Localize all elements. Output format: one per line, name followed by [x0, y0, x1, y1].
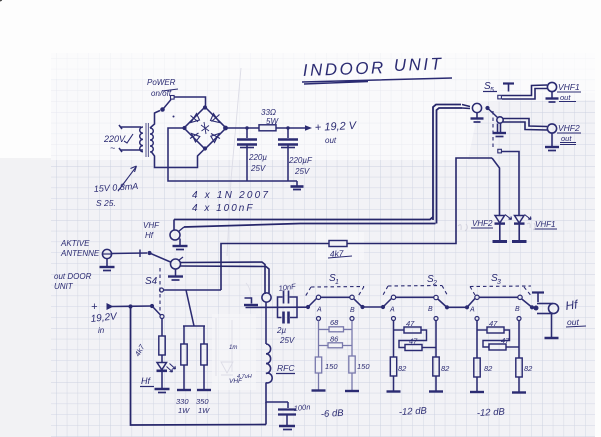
- wire riser to dropper resistors: [186, 290, 194, 326]
- connector VHF1 out jack: [547, 82, 556, 91]
- svg-text:B: B: [428, 306, 433, 313]
- wire pair pivot to VHF2 jack: [503, 119, 547, 131]
- scan lighter zone top: [51, 53, 595, 160]
- switch S5 upper contact square: [498, 95, 502, 99]
- ground VHF2 jack: [545, 133, 559, 150]
- svg-text:350: 350: [196, 397, 209, 406]
- connector VHF input jack: [170, 220, 184, 241]
- wire pair S4 jack to bias junction: [181, 262, 270, 294]
- connector S5 common jack: [472, 103, 481, 112]
- svg-text:-12 dB: -12 dB: [399, 406, 428, 418]
- svg-text:330: 330: [176, 397, 189, 406]
- svg-text:+: +: [91, 301, 98, 313]
- resistor 330 1W: [183, 326, 185, 344]
- svg-text:ANTENNE: ANTENNE: [60, 249, 100, 258]
- svg-text:33Ω: 33Ω: [261, 108, 276, 117]
- svg-text:A: A: [469, 307, 475, 314]
- svg-text:47: 47: [489, 319, 498, 328]
- svg-text:out: out: [560, 93, 571, 102]
- S1 shunt terminals: [317, 317, 321, 321]
- wire secondary bottom to bridge bottom: [152, 150, 204, 168]
- svg-text:150: 150: [357, 362, 370, 371]
- svg-text:5: 5: [490, 87, 494, 94]
- wire lower contact to VHF1 LED: [502, 152, 520, 216]
- wire 19.2V input line: [112, 305, 152, 308]
- switch S5 upper arm: [485, 106, 489, 110]
- switch S2: [381, 305, 385, 309]
- wire bridge left to 0V rail: [168, 128, 297, 181]
- svg-text:47: 47: [409, 337, 418, 346]
- svg-text:5W: 5W: [266, 117, 279, 126]
- connector Hf out plug: [534, 306, 539, 311]
- capacitor 10nF coupling: [278, 291, 298, 308]
- switch S5 dashed link: [492, 111, 494, 148]
- S2 shunt terminals: [392, 317, 396, 321]
- svg-text:out: out: [561, 134, 572, 143]
- svg-text:AKTIVE: AKTIVE: [60, 239, 90, 248]
- scanner corner mark: [0, 0, 2, 2]
- connector aktive antenne: [102, 249, 147, 258]
- wire bridge right +rail: [226, 127, 305, 129]
- wire pair vertical run up to S5: [433, 105, 470, 224]
- S1 series resistor 68: [318, 321, 320, 358]
- svg-text:4 x 100nF: 4 x 100nF: [192, 203, 254, 214]
- S3 shunt terminals: [475, 317, 479, 321]
- wire left rail down and bottom rail: [131, 307, 267, 426]
- svg-text:4 x 1N 2007: 4 x 1N 2007: [192, 190, 270, 201]
- svg-text:1m: 1m: [229, 345, 237, 351]
- svg-text:VHF: VHF: [143, 221, 160, 230]
- svg-text:out: out: [567, 317, 579, 327]
- label 220V ~: [103, 134, 133, 153]
- ground 0V rail: [291, 181, 304, 190]
- svg-text:UNIT: UNIT: [393, 54, 443, 75]
- svg-text:25V: 25V: [294, 167, 310, 176]
- ground below S5 pivot: [493, 124, 507, 137]
- S3 shunt resistor 82 left: [474, 358, 480, 377]
- svg-text:-12 dB: -12 dB: [477, 407, 506, 419]
- S3 shunt resistor 82 right: [516, 358, 522, 377]
- ground S4 jack: [168, 269, 183, 280]
- switch S5 pivot jack: [497, 117, 503, 123]
- svg-text:VHF2: VHF2: [472, 219, 493, 228]
- wire S1 B to S2 A: [363, 306, 384, 308]
- svg-text:S4: S4: [145, 276, 158, 287]
- switch power on/off: [161, 96, 175, 118]
- capacitor C1 220u 25V: [237, 128, 257, 181]
- svg-text:Hf: Hf: [145, 231, 154, 240]
- switch S2 dashed box: [383, 286, 447, 296]
- svg-text:UNIT: UNIT: [54, 282, 74, 291]
- wire secondary top to switch: [150, 111, 160, 129]
- svg-text:1W: 1W: [178, 406, 190, 415]
- transformer T1 windings and core: [140, 123, 154, 157]
- svg-text:100n: 100n: [293, 402, 311, 413]
- S1 shunt resistor 150 right: [349, 356, 355, 373]
- ground at bias junction: [244, 298, 258, 305]
- svg-text:B: B: [350, 307, 355, 314]
- S2 shunt resistor 82 right: [433, 357, 439, 376]
- choke RFC vertical: [265, 302, 267, 344]
- svg-text:Hf: Hf: [141, 376, 151, 386]
- svg-text:A: A: [316, 307, 322, 314]
- switch S1 dashed box: [306, 287, 365, 297]
- wire switch to bridge top: [175, 97, 206, 106]
- svg-text:B: B: [515, 306, 520, 313]
- switch S4 lower contact: [160, 315, 164, 319]
- ground aktive antenne: [100, 259, 115, 271]
- switch S5 lower contact square: [498, 149, 502, 153]
- svg-text:82: 82: [484, 364, 493, 373]
- wire 4k7 feed line horizontal: [221, 244, 329, 291]
- S1 shunt resistor 150 left: [315, 357, 321, 373]
- S1 series resistor 86: [319, 345, 353, 347]
- wire 4k7 to S5 lower contact: [347, 158, 492, 244]
- ghost pencil marks near LEDs: [458, 223, 535, 231]
- terminal T stub upper: [503, 84, 514, 92]
- S3 series resistor 47 top: [476, 321, 478, 359]
- svg-text:in: in: [98, 326, 105, 335]
- switch S3: [465, 305, 469, 309]
- bridge diodes scribble: [190, 114, 220, 143]
- svg-text:1: 1: [335, 279, 339, 286]
- switch S4 lower arm: [152, 306, 161, 315]
- svg-text:-6 dB: -6 dB: [321, 408, 345, 420]
- connector VHF2 out jack: [547, 124, 556, 133]
- svg-text:82: 82: [398, 364, 407, 373]
- title INDOOR UNIT: [302, 54, 452, 84]
- svg-text:47: 47: [501, 336, 510, 345]
- svg-text:out DOOR: out DOOR: [54, 272, 92, 281]
- S2 shunt resistor 82 left: [390, 357, 396, 376]
- svg-text:+ 19,2 V: + 19,2 V: [315, 120, 359, 134]
- svg-text:150: 150: [325, 362, 338, 371]
- svg-text:220µF: 220µF: [288, 156, 313, 165]
- switch S4 upper arm: [147, 251, 151, 255]
- switch S4 middle contact: [160, 288, 164, 292]
- S3 series resistor 47 bottom: [489, 344, 506, 350]
- svg-text:2µ: 2µ: [276, 326, 286, 335]
- ghost erased area patches: [212, 314, 256, 390]
- capacitor 100n decoupling: [278, 402, 296, 430]
- resistor 4k7 feed: [329, 241, 347, 247]
- svg-text:~: ~: [110, 143, 115, 153]
- svg-text:A: A: [389, 307, 395, 314]
- wire pair upper contact to VHF1 jack: [502, 85, 547, 99]
- svg-text:VHF2: VHF2: [558, 123, 580, 133]
- svg-text:VHF1: VHF1: [558, 82, 580, 92]
- LED VHF2: [495, 216, 505, 224]
- transformer T1 220V primary leads: [119, 125, 143, 152]
- resistor 350 1W: [203, 326, 205, 344]
- svg-text:68: 68: [330, 318, 339, 327]
- terminal T stub at Hf out: [532, 293, 544, 303]
- svg-text:82: 82: [441, 364, 450, 373]
- svg-text:4,7uH: 4,7uH: [237, 374, 252, 380]
- resistor 4k7 dropper: [159, 336, 165, 355]
- svg-text:VHF1: VHF1: [535, 220, 555, 229]
- ground VHF1 jack: [546, 92, 559, 102]
- svg-text:RFC: RFC: [277, 363, 295, 373]
- wire signal line through caps: [246, 306, 309, 308]
- resistor 33ohm 5W: [259, 125, 276, 131]
- ground VHF input jack: [173, 239, 188, 250]
- switch S3 dashed box: [470, 286, 531, 296]
- left margin gray strip: [0, 158, 51, 437]
- svg-text:25V: 25V: [279, 336, 295, 345]
- svg-text:out: out: [325, 136, 337, 145]
- wire choke bottom to rail: [266, 383, 288, 403]
- svg-text:3: 3: [497, 279, 501, 286]
- graph paper: [51, 53, 595, 437]
- wire S2 B to S3 A: [447, 306, 467, 308]
- LED VHF1: [515, 216, 525, 224]
- ground Hf out: [551, 314, 553, 338]
- capacitor C2 220uF 25V: [278, 128, 298, 181]
- svg-text:1W: 1W: [198, 406, 210, 415]
- LED Hf indicator: [161, 355, 163, 363]
- wire S4 to 4k7 dropper: [161, 319, 163, 337]
- label POWER on/off: [147, 78, 178, 98]
- svg-text:82: 82: [524, 364, 533, 373]
- wire pair antenna line to selector (top run): [174, 217, 436, 227]
- bridge rectifier diamond 4x1N2007: [184, 107, 226, 149]
- ground S5 common jack: [471, 113, 484, 122]
- svg-text:86: 86: [330, 335, 339, 344]
- svg-text:S 25.: S 25.: [96, 198, 116, 208]
- svg-text:INDOOR: INDOOR: [302, 58, 386, 80]
- S2 series resistor 47 bottom: [405, 345, 422, 351]
- connector S4 jack: [171, 257, 184, 269]
- S2 series resistor 47 top: [393, 321, 395, 358]
- bias junction connector circle: [262, 293, 271, 302]
- arrow +19.2V out: [305, 125, 312, 131]
- svg-text:PoWER: PoWER: [147, 78, 176, 87]
- svg-text:220µ: 220µ: [248, 153, 267, 162]
- switch S1: [306, 305, 310, 309]
- capacitor 2u 25V coupling: [278, 307, 298, 323]
- switch S4 dashed link: [159, 268, 161, 312]
- svg-text:47: 47: [406, 319, 415, 328]
- wire box edge to VHF2 LED: [492, 158, 500, 216]
- svg-text:25V: 25V: [250, 164, 266, 173]
